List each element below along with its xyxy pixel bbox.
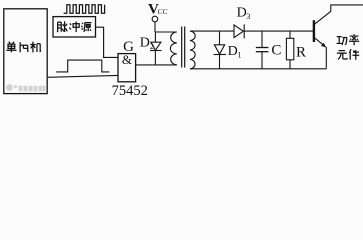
microcontroller block 单片机 xyxy=(4,9,47,94)
transformer core xyxy=(182,27,185,68)
watermark xyxy=(6,84,45,91)
svg-text:CC: CC xyxy=(158,7,169,16)
svg-text:C: C xyxy=(271,43,281,59)
svg-text:D: D xyxy=(140,35,150,50)
resistor R xyxy=(286,31,293,69)
label Vcc xyxy=(148,1,169,17)
wire gate output to transformer primary xyxy=(136,64,177,66)
svg-text:G: G xyxy=(123,39,134,55)
diode D1 (shunt) xyxy=(214,31,226,69)
transformer T primary winding xyxy=(170,32,176,65)
wire microcontroller to gate input xyxy=(47,75,118,77)
diode D2 (across primary) xyxy=(150,32,162,65)
svg-text:R: R xyxy=(296,45,306,61)
pulse train waveform xyxy=(64,5,105,14)
svg-text:75452: 75452 xyxy=(112,83,148,99)
label D3 xyxy=(237,6,251,21)
transistor Q1 (power device) xyxy=(314,5,363,69)
pulse source block 脉冲源 xyxy=(53,17,96,37)
transformer secondary winding xyxy=(190,31,195,69)
single pulse waveform annotation xyxy=(56,60,109,72)
label 功率元件 xyxy=(337,34,360,60)
label 脉冲源 xyxy=(57,21,92,32)
diode D3 (series) xyxy=(234,24,314,38)
wire pulse source to gate input xyxy=(96,27,119,57)
svg-text:1: 1 xyxy=(238,51,242,60)
svg-text:3: 3 xyxy=(246,12,250,21)
capacitor C xyxy=(256,31,269,69)
svg-text:D: D xyxy=(237,6,247,21)
AND gate U1 75452 xyxy=(118,54,136,82)
svg-text:D: D xyxy=(228,44,238,59)
Vcc terminal xyxy=(152,16,158,32)
svg-text:2: 2 xyxy=(150,42,154,51)
label D1 xyxy=(228,44,242,60)
wire secondary top rail xyxy=(190,30,234,32)
label D2 xyxy=(140,35,154,51)
wire Vcc rail to primary top xyxy=(155,31,177,33)
label 单片机 xyxy=(6,42,41,53)
wire bottom rail xyxy=(190,68,326,70)
